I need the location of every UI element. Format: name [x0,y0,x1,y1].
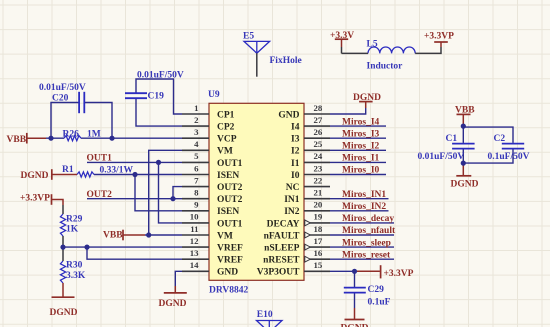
svg-text:nFAULT: nFAULT [264,231,301,241]
svg-text:C1: C1 [446,134,458,144]
svg-text:Miros_nfault: Miros_nfault [342,226,396,236]
svg-text:1M: 1M [87,130,101,140]
svg-text:9: 9 [194,200,199,210]
svg-text:OUT1: OUT1 [217,219,243,229]
svg-text:0.1uF: 0.1uF [368,298,391,308]
svg-text:4: 4 [194,139,199,149]
svg-text:0.01uF/50V: 0.01uF/50V [418,152,465,162]
svg-text:14: 14 [190,260,199,270]
svg-text:23: 23 [314,163,323,173]
svg-text:DGND: DGND [21,171,49,181]
svg-text:12: 12 [190,236,199,246]
svg-text:CP1: CP1 [217,110,235,120]
svg-text:GND: GND [278,110,299,120]
svg-text:DECAY: DECAY [267,219,300,229]
svg-text:28: 28 [314,103,323,113]
svg-text:0.01uF/50V: 0.01uF/50V [137,71,184,81]
svg-text:18: 18 [314,224,323,234]
svg-text:CP2: CP2 [217,123,235,133]
svg-text:0.01uF/50V: 0.01uF/50V [39,83,86,93]
svg-text:27: 27 [314,115,323,125]
svg-text:16: 16 [314,248,323,258]
svg-text:Miros_sleep: Miros_sleep [342,238,391,248]
svg-text:VBB: VBB [103,231,123,241]
svg-text:DGND: DGND [451,180,479,190]
svg-text:0.1uF/50V: 0.1uF/50V [488,152,530,162]
svg-text:+3.3VP: +3.3VP [424,32,454,42]
svg-text:VM: VM [217,147,233,157]
svg-text:17: 17 [314,236,323,246]
svg-text:Miros_I0: Miros_I0 [342,166,380,176]
svg-text:Miros_decay: Miros_decay [342,214,394,224]
svg-text:21: 21 [314,188,323,198]
svg-text:3.3K: 3.3K [66,271,86,281]
svg-text:OUT2: OUT2 [217,195,243,205]
svg-text:Miros_IN1: Miros_IN1 [342,190,386,200]
svg-text:DGND: DGND [50,308,78,318]
svg-text:19: 19 [314,212,323,222]
svg-text:E10: E10 [257,310,273,320]
svg-text:R1: R1 [62,165,74,175]
svg-text:GND: GND [217,268,238,278]
svg-text:Miros_I1: Miros_I1 [342,154,380,164]
svg-text:I1: I1 [291,159,300,169]
svg-text:10: 10 [190,212,199,222]
svg-text:ISEN: ISEN [217,207,239,217]
svg-text:R30: R30 [66,261,83,271]
svg-text:VREF: VREF [217,244,243,254]
svg-text:C19: C19 [148,92,165,102]
svg-text:Miros_I2: Miros_I2 [342,142,380,152]
svg-text:VBB: VBB [7,135,27,145]
svg-text:VCP: VCP [217,135,237,145]
svg-text:OUT2: OUT2 [217,183,243,193]
svg-text:11: 11 [190,224,198,234]
svg-text:R26: R26 [63,130,80,140]
svg-text:2: 2 [194,115,199,125]
svg-text:DGND: DGND [341,324,369,327]
svg-text:OUT2: OUT2 [87,190,113,200]
svg-text:+3.3VP: +3.3VP [384,269,414,279]
svg-text:DGND: DGND [159,299,187,309]
svg-text:DRV8842: DRV8842 [209,286,248,296]
svg-text:OUT1: OUT1 [87,154,113,164]
svg-text:V3P3OUT: V3P3OUT [257,268,300,278]
svg-text:ISEN: ISEN [217,171,239,181]
svg-text:VREF: VREF [217,256,243,266]
svg-text:C2: C2 [494,134,506,144]
svg-text:U9: U9 [208,90,220,100]
svg-text:Miros_IN2: Miros_IN2 [342,202,386,212]
svg-text:nRESET: nRESET [263,256,300,266]
svg-text:1: 1 [194,103,198,113]
svg-text:6: 6 [194,163,199,173]
svg-text:25: 25 [314,139,323,149]
svg-text:I0: I0 [291,171,300,181]
svg-text:FixHole: FixHole [270,56,302,66]
svg-text:0.33/1W: 0.33/1W [100,166,134,176]
svg-text:L5: L5 [367,40,378,50]
svg-text:R29: R29 [66,215,83,225]
svg-text:IN1: IN1 [284,195,300,205]
svg-text:5: 5 [194,151,199,161]
svg-text:OUT1: OUT1 [217,159,243,169]
svg-text:8: 8 [194,188,199,198]
svg-text:nSLEEP: nSLEEP [264,244,300,254]
svg-text:20: 20 [314,200,323,210]
svg-text:+3.3VP: +3.3VP [20,194,50,204]
svg-text:13: 13 [190,248,199,258]
svg-text:24: 24 [314,151,323,161]
svg-text:I3: I3 [291,135,300,145]
svg-text:Miros_I3: Miros_I3 [342,129,380,139]
svg-text:1K: 1K [66,225,79,235]
svg-text:7: 7 [194,175,199,185]
svg-text:26: 26 [314,127,323,137]
svg-text:C29: C29 [368,285,385,295]
svg-text:Miros_I4: Miros_I4 [342,117,380,127]
svg-text:C20: C20 [52,94,69,104]
svg-text:Inductor: Inductor [367,62,404,72]
svg-text:22: 22 [314,175,323,185]
svg-text:NC: NC [286,183,300,193]
svg-text:IN2: IN2 [284,207,300,217]
svg-text:I2: I2 [291,147,300,157]
svg-text:I4: I4 [291,123,300,133]
svg-text:3: 3 [194,127,199,137]
svg-text:E5: E5 [243,31,254,41]
svg-text:VM: VM [217,231,233,241]
svg-text:Miros_reset: Miros_reset [342,250,391,260]
svg-text:15: 15 [314,260,323,270]
